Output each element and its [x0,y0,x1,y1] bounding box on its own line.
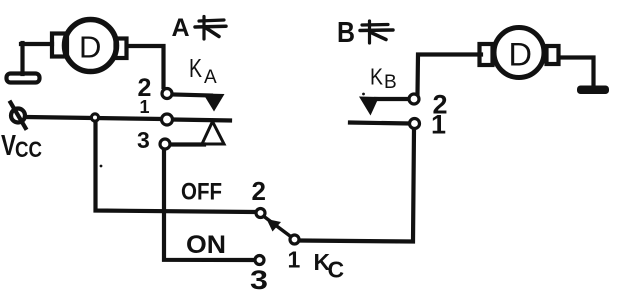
svg-text:3: 3 [250,265,268,295]
svg-text:ON: ON [186,231,226,259]
svg-text:K: K [370,64,384,90]
svg-text:K: K [189,53,202,83]
svg-text:C: C [328,257,345,283]
svg-text:B: B [384,72,397,93]
svg-text:1: 1 [288,247,301,273]
svg-text:OFF: OFF [181,179,222,206]
svg-text:B: B [337,17,355,49]
svg-text:1: 1 [140,97,150,117]
svg-text:1: 1 [431,110,446,140]
svg-text:CC: CC [15,137,42,162]
svg-text:D: D [79,30,101,65]
svg-text:D: D [509,37,532,73]
svg-text:A: A [204,67,217,88]
svg-text:2: 2 [252,176,266,206]
svg-text:3: 3 [137,127,150,153]
svg-text:A: A [172,14,190,42]
